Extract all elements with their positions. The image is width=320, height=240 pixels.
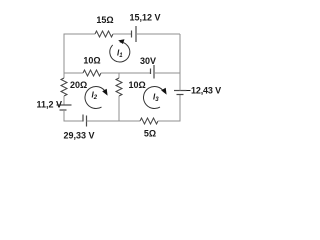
resistor 20ohm [61,78,67,96]
mesh current I2 arrowhead [102,89,107,96]
svg-text:I1: I1 [117,49,123,60]
wire middle center [101,72,150,74]
wire left vertical to battery [63,96,65,105]
voltage source 15,12 V long plate [135,26,137,42]
wire bottom center [119,120,140,122]
resistor 10ohm vertical [116,78,122,96]
voltage source 12,43 V short plate [177,94,184,96]
svg-text:15,12 V: 15,12 V [129,13,160,23]
wire top mid [113,33,131,35]
svg-text:15Ω: 15Ω [96,15,113,25]
wire right vertical upper [179,34,181,73]
voltage source 12,43 V long plate [174,90,187,92]
mesh current I3 arc [144,87,165,109]
svg-text:I3: I3 [153,93,159,104]
wire top right [136,33,180,35]
svg-text:30V: 30V [140,56,156,66]
wire middle vertical top [118,73,120,78]
wire middle left [64,72,83,74]
wire middle right [154,72,180,74]
svg-text:12,43 V: 12,43 V [191,86,221,96]
wire bottom right [158,95,180,122]
svg-text:11,2 V: 11,2 V [36,100,62,110]
mesh current I3 arrowhead [161,88,166,95]
resistor 5ohm [140,118,158,124]
mesh current I1 arc [110,42,130,62]
svg-text:10Ω: 10Ω [83,56,100,66]
resistor 15ohm [95,31,113,37]
wire middle vertical bottom [118,96,120,121]
svg-text:20Ω: 20Ω [70,80,87,90]
voltage source 29,33 V long plate [86,116,88,127]
leader dash to 12,43 V label [187,90,191,92]
voltage source 15,12 V short plate [131,31,133,38]
mesh current I1 arrowhead [118,39,124,44]
wire top left vertical [64,34,95,73]
voltage source 11,2 V short plate [60,109,67,111]
wire bottom left-center [87,120,120,122]
wire left vertical upper segment below junction [63,73,65,78]
wire left vertical lower [64,110,83,121]
svg-text:10Ω: 10Ω [129,80,146,90]
voltage source 11,2 V long plate [57,104,72,106]
svg-text:I2: I2 [92,91,98,102]
resistor 10ohm horizontal [83,70,101,76]
voltage source 30V long plate [153,65,155,79]
voltage source 30V short plate [150,69,152,75]
voltage source 29,33 V short plate [82,115,84,122]
svg-text:5Ω: 5Ω [144,129,156,139]
svg-text:29,33 V: 29,33 V [63,131,94,141]
mesh current I2 arc [85,87,106,109]
wire right vertical lower above source [179,73,181,91]
